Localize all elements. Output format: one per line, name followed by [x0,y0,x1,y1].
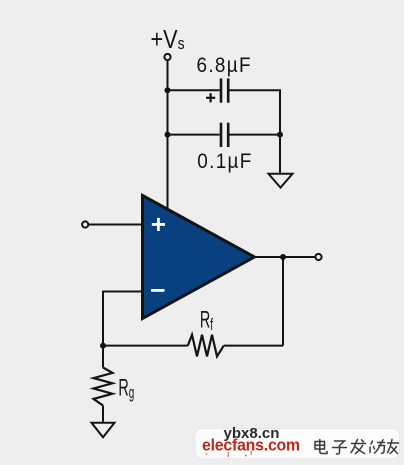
label Rf [200,307,213,334]
wire supply vertical [167,60,169,211]
op-amp U1 [143,196,255,319]
watermark chinese char shao [370,440,385,453]
wire output [255,256,316,258]
svg-text:0.1µF: 0.1µF [197,150,252,173]
wire inverting input horizontal [103,291,143,293]
resistor Rg [94,368,113,406]
watermark chinese char you [388,440,399,454]
wire feedback to Rf [224,345,283,347]
junction dot supply/C2 [165,132,171,138]
junction dot supply/C1 [165,87,171,93]
watermark chinese char dian [315,440,327,454]
ground G1 [269,174,293,188]
junction dot C2/ground branch [277,132,283,138]
junction dot inverting node [100,343,106,349]
value label 6.8uF [197,54,252,77]
terminal +Vs [164,54,170,60]
watermark splatter [206,451,252,457]
watermark panel [195,429,400,459]
ground G2 [92,423,115,438]
resistor Rf [188,335,224,357]
wire to C2 left [168,134,220,136]
watermark chinese char fa [351,440,366,454]
wire feedback vertical [282,257,284,346]
wire down to ground G1 [279,135,281,174]
polarity plus C1 [206,93,215,102]
wire node to Rg [102,346,104,368]
terminal output [315,254,321,260]
wire right vertical [279,90,281,134]
watermark elecfans.com [202,436,300,455]
wire Rg to ground G2 [102,406,104,423]
watermark chinese char zi [333,441,347,454]
wire noninverting input [88,224,142,226]
terminal input [82,221,88,227]
wire inverting input vertical [102,291,104,346]
plus input mark [152,218,165,231]
svg-text:6.8µF: 6.8µF [197,54,252,77]
wire Rf to node [103,345,188,347]
wire to C1 left [168,89,220,91]
wire C1 right to corner [229,89,281,91]
wire C2 right [229,134,280,136]
label Rg [118,375,134,402]
value label 0.1uF [197,150,252,173]
label +Vs [151,26,185,54]
capacitor C2 0.1uF [221,123,228,147]
junction dot output/feedback [280,254,286,260]
capacitor C1 6.8uF [221,78,228,102]
minus input mark [151,289,165,292]
